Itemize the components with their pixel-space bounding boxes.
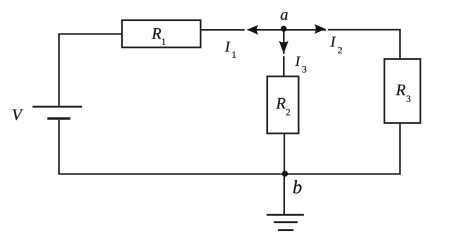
node label b — [293, 180, 301, 193]
wire top-left: R1 left to corner to battery top — [59, 34, 122, 106]
wire top middle (behind arrows) — [248, 29, 327, 31]
wire top right to R3 — [328, 30, 400, 59]
wire middle vertical: R2 bottom to node b — [283, 133, 285, 174]
label R1 letter R — [152, 28, 162, 39]
label R2 subscript 2 — [286, 109, 290, 115]
wire top: R1 right to corner to R3 top — [201, 29, 245, 31]
resistor R2 box — [267, 76, 298, 133]
label I3 letter I — [295, 57, 300, 66]
node label a — [281, 12, 288, 20]
label R1 subscript 1 — [162, 39, 165, 45]
arrowhead I2 (points right) — [314, 24, 325, 34]
label V — [13, 110, 24, 121]
node b junction dot — [282, 171, 288, 177]
label R2 letter R — [276, 98, 286, 109]
battery source V long plate — [33, 106, 83, 108]
label I2 subscript 2 — [338, 47, 342, 53]
wire middle vertical below arrow to R2 top — [283, 56, 285, 76]
label I2 letter I — [330, 37, 336, 47]
arrowhead I3 (points down) — [279, 41, 289, 54]
ground bar 1 — [267, 214, 304, 216]
ground bar 3 — [278, 229, 294, 231]
ground bar 2 — [274, 221, 298, 223]
label R3 letter R — [396, 85, 406, 96]
wire middle vertical: node a down to R2 top — [283, 29, 285, 54]
battery source V short plate — [47, 117, 70, 119]
node a junction dot — [281, 26, 287, 32]
label I1 letter I — [225, 42, 231, 52]
ground stem — [283, 174, 285, 215]
label I1 subscript 1 — [232, 51, 235, 57]
wire battery bottom, bottom rail, right riser to R3 bottom — [59, 120, 400, 174]
resistor R1 box — [122, 20, 201, 47]
resistor R3 box — [384, 59, 420, 123]
label R3 subscript 3 — [407, 96, 411, 102]
arrowhead I1 (points left) — [247, 25, 258, 35]
label I3 subscript 3 — [303, 66, 307, 72]
